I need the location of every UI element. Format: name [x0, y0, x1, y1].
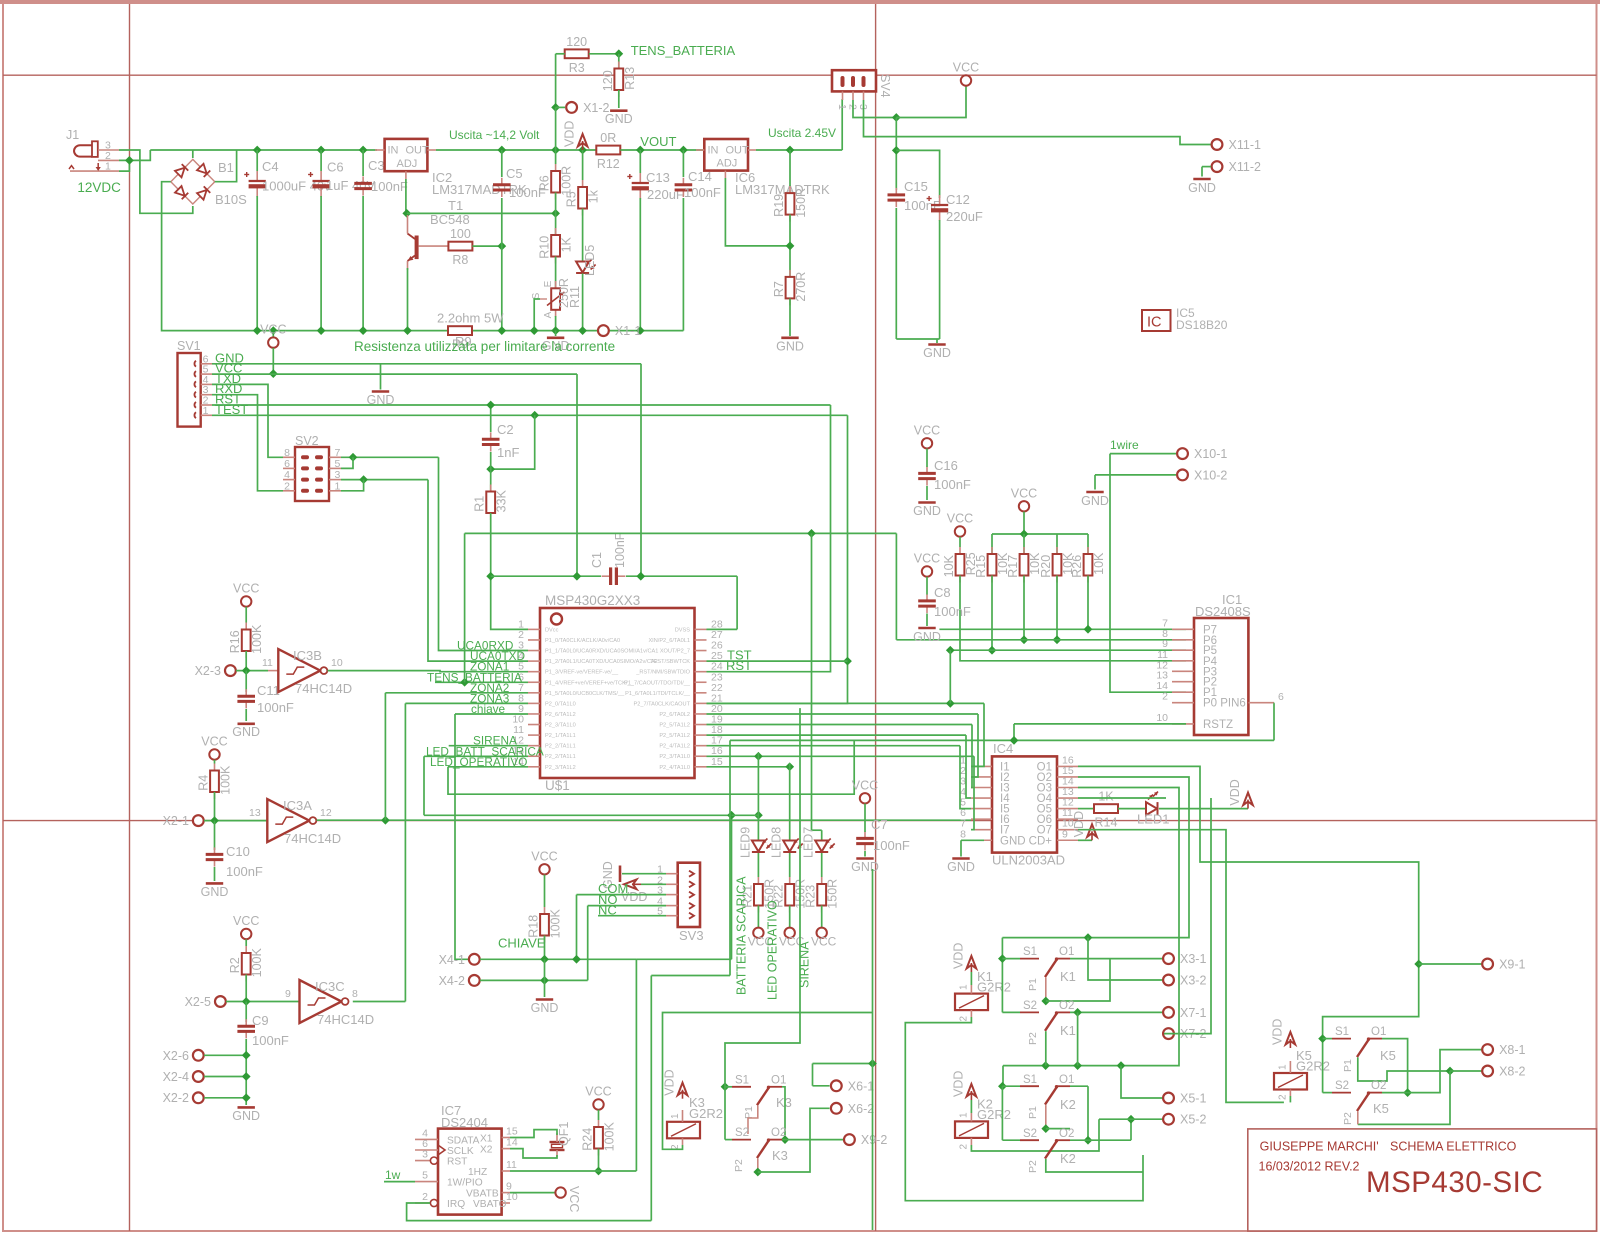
- svg-text:IC3B: IC3B: [293, 648, 322, 663]
- junction: [1403, 1088, 1412, 1097]
- junction: [317, 146, 326, 155]
- svg-text:100K: 100K: [549, 908, 563, 938]
- svg-text:P1_3/VREF-ve/VEREF-ve/__: P1_3/VREF-ve/VEREF-ve/__: [545, 670, 619, 676]
- svg-text:K3: K3: [776, 1095, 792, 1110]
- svg-text:VCC: VCC: [953, 61, 979, 75]
- wire TST row: [707, 660, 848, 662]
- svg-text:G2R2: G2R2: [977, 980, 1011, 995]
- svg-text:VCC: VCC: [567, 1186, 581, 1212]
- inverter IC3C 74HC14: [300, 980, 349, 1023]
- junction: [1073, 1008, 1082, 1017]
- junction: [242, 1093, 251, 1102]
- resistor R1: [473, 485, 509, 521]
- wire C1 left line: [491, 575, 601, 577]
- svg-text:R3: R3: [569, 61, 585, 75]
- VCC supply for R25: [947, 512, 973, 537]
- pin X2-2: [163, 1091, 204, 1105]
- svg-text:LED8: LED8: [770, 827, 784, 858]
- svg-text:VDD: VDD: [951, 943, 965, 969]
- logo circle in MSP430: [551, 614, 562, 625]
- svg-text:GND: GND: [232, 1109, 260, 1123]
- svg-text:SV3: SV3: [679, 928, 704, 943]
- wire R10 to R11: [555, 257, 557, 289]
- resistor R7: [772, 270, 808, 306]
- wire rail to R26: [1087, 534, 1089, 554]
- VCC supply for C16: [914, 423, 940, 448]
- pin X6-1: [831, 1079, 874, 1093]
- svg-text:GND: GND: [913, 504, 941, 518]
- svg-text:2: 2: [1162, 691, 1168, 703]
- svg-text:GND: GND: [232, 725, 260, 739]
- wire VCC to R2: [245, 939, 247, 946]
- svg-text:11: 11: [262, 657, 273, 669]
- svg-text:X4-1: X4-1: [439, 953, 465, 967]
- svg-text:VCC: VCC: [1011, 486, 1037, 500]
- svg-text:100nF: 100nF: [613, 532, 627, 568]
- wire TEST riser long: [707, 415, 848, 703]
- svg-text:220uF: 220uF: [946, 209, 983, 224]
- VDD supply K5: [1270, 1019, 1295, 1048]
- svg-text:X9-2: X9-2: [861, 1133, 887, 1147]
- svg-text:10K: 10K: [1092, 552, 1106, 575]
- svg-text:2: 2: [959, 1144, 970, 1150]
- junction: [1084, 625, 1093, 634]
- svg-text:100nF: 100nF: [371, 179, 408, 194]
- svg-text:_RST/NMI/SBWTDIO: _RST/NMI/SBWTDIO: [635, 670, 690, 676]
- wire VCC to R25: [959, 537, 961, 547]
- svg-text:X2-3: X2-3: [195, 664, 221, 678]
- wire K2 P1 right: [1046, 1128, 1070, 1130]
- wire LED7 feed: [821, 830, 823, 840]
- svg-text:X1: X1: [480, 1134, 493, 1145]
- wire R4 to node: [214, 792, 216, 821]
- wire R7 to GND: [789, 299, 791, 337]
- wire long horizontal 740: [730, 739, 1274, 741]
- LED LED5: [576, 260, 596, 274]
- svg-text:C11: C11: [257, 683, 280, 698]
- svg-text:74HC14D: 74HC14D: [317, 1012, 374, 1027]
- wire to X3-2: [1088, 938, 1164, 980]
- wire SV3 pin2: [641, 883, 666, 885]
- wire TEST to C2 bottom: [491, 415, 535, 469]
- junction: [1010, 736, 1019, 745]
- frame vertical divider left: [129, 4, 131, 1231]
- wire RST down to MSP pin24: [707, 405, 831, 672]
- svg-text:1: 1: [203, 405, 209, 417]
- svg-text:VBATB: VBATB: [466, 1189, 499, 1200]
- svg-text:C10: C10: [226, 844, 250, 859]
- svg-text:O1: O1: [1059, 1074, 1074, 1086]
- wire X8-2 join: [1450, 1070, 1482, 1072]
- svg-text:MSP430-SIC: MSP430-SIC: [1366, 1166, 1543, 1199]
- resistor R4: [197, 764, 233, 800]
- wire SV2 pin3 right: [341, 479, 428, 481]
- wire SV2 pin7 to pin5: [341, 457, 353, 468]
- svg-text:100nF: 100nF: [873, 838, 910, 853]
- wire R19 top: [789, 150, 791, 186]
- wire X10-2 down: [1094, 475, 1096, 490]
- wire to gnd: [936, 339, 938, 343]
- wire T1 emitter to rail: [407, 268, 409, 331]
- junction: [242, 666, 251, 675]
- wire K1 S2 join: [1002, 1011, 1020, 1013]
- svg-text:11: 11: [506, 1159, 517, 1171]
- ground C10: [201, 883, 229, 899]
- svg-text:LED1: LED1: [1137, 812, 1170, 827]
- VDD arrow SV3 pin2: [621, 880, 647, 905]
- wire X4-1 chiave row: [480, 958, 636, 960]
- wire IC2 OUT to R12: [436, 149, 596, 151]
- svg-text:10K: 10K: [942, 554, 956, 577]
- svg-text:Resistenza utilizzata per limi: Resistenza utilizzata per limitare la co…: [354, 339, 615, 354]
- svg-text:R8: R8: [452, 253, 468, 267]
- wire K2 O1: [1070, 1085, 1088, 1087]
- junction: [1446, 1067, 1455, 1076]
- wire bank rail: [992, 533, 1088, 535]
- svg-text:K2: K2: [1060, 1097, 1076, 1112]
- pin X10-2: [1177, 468, 1227, 482]
- svg-text:S1: S1: [735, 1074, 749, 1086]
- svg-text:13: 13: [249, 807, 261, 819]
- VCC supply VBATB: [555, 1187, 565, 1197]
- junction: [359, 475, 368, 484]
- svg-text:SV1: SV1: [177, 339, 201, 353]
- wire R18 to chiave row: [544, 936, 546, 960]
- svg-text:X8-2: X8-2: [1499, 1065, 1525, 1079]
- VDD supply at 14V rail: [563, 121, 588, 150]
- svg-text:K1: K1: [1060, 969, 1076, 984]
- pin X5-2: [1163, 1113, 1206, 1127]
- wire ZONA3 row: [405, 702, 528, 704]
- svg-text:P2_1/TA1L1: P2_1/TA1L1: [545, 733, 576, 739]
- svg-text:100nF: 100nF: [684, 185, 721, 200]
- wire X11-2 stub: [1202, 166, 1211, 168]
- wire rail to IC2 IN: [257, 149, 377, 151]
- junction: [998, 1082, 1007, 1091]
- wire K2 S1 S2 tie: [1001, 1086, 1003, 1140]
- ground X4: [531, 1000, 559, 1016]
- resistor R9 2.2ohm 5W: [448, 326, 472, 351]
- junction: [381, 816, 390, 825]
- svg-text:P1_7/CAOUT/TDO/TDI/__: P1_7/CAOUT/TDO/TDI/__: [624, 680, 691, 686]
- svg-text:1: 1: [670, 1113, 681, 1119]
- svg-text:K5: K5: [1373, 1101, 1389, 1116]
- wire LED_OPERATIVO long route: [448, 740, 854, 794]
- svg-text:1K: 1K: [1098, 790, 1114, 804]
- wire 1wire to X10-1: [1110, 453, 1176, 455]
- svg-text:IC3A: IC3A: [283, 798, 312, 813]
- wire R14 to LED1: [1118, 808, 1146, 810]
- svg-text:P1: P1: [743, 1106, 755, 1119]
- wire X2-2: [204, 1097, 246, 1099]
- junction: [540, 976, 549, 985]
- pin X2-1: [163, 814, 204, 828]
- VDD supply K3: [663, 1069, 688, 1098]
- svg-text:VCC: VCC: [531, 849, 557, 863]
- wire bottom rail right part: [472, 330, 683, 332]
- junction: [1041, 997, 1050, 1006]
- svg-text:C3: C3: [368, 158, 385, 173]
- wire R26 to IC1 P7: [1088, 576, 1186, 630]
- contact K3 S2-O2: [732, 1138, 782, 1158]
- wire down to GND: [544, 959, 546, 997]
- wire 533 row down to LED7: [811, 533, 813, 830]
- wire to VCC circle: [896, 86, 966, 118]
- resistor R5: [565, 180, 601, 216]
- svg-text:C6: C6: [327, 160, 344, 175]
- svg-text:33K: 33K: [495, 489, 509, 512]
- svg-text:X2-6: X2-6: [163, 1049, 189, 1063]
- junction: [359, 146, 368, 155]
- svg-text:2: 2: [284, 480, 290, 492]
- svg-text:P2_5/TA1L2: P2_5/TA1L2: [659, 733, 690, 739]
- wire R3 left: [556, 53, 565, 55]
- IC IC1 DS2408S: [1194, 618, 1248, 735]
- svg-text:GND: GND: [531, 1001, 559, 1015]
- wire chiave row: [455, 713, 528, 715]
- junction: [1414, 960, 1423, 969]
- wire R25 to P4 row: [960, 576, 1186, 661]
- svg-text:R16: R16: [228, 630, 242, 653]
- wire K5 P1 to X8-2: [1358, 1057, 1450, 1081]
- svg-text:ULN2003AD: ULN2003AD: [992, 853, 1065, 868]
- svg-text:VOUT: VOUT: [640, 134, 676, 149]
- wire IC6 ADJ to divider: [725, 178, 790, 246]
- wire 1w to pin5: [384, 1181, 415, 1183]
- svg-text:IC3C: IC3C: [315, 979, 345, 994]
- junction: [551, 326, 560, 335]
- wire C8 to GND: [926, 614, 928, 627]
- junction: [578, 146, 587, 155]
- wire R16 to node: [245, 651, 247, 671]
- VCC supply C7: [852, 778, 878, 803]
- wire riser 731: [731, 815, 733, 959]
- junction: [721, 1082, 730, 1091]
- wire K5 coil pin2: [1289, 1096, 1291, 1102]
- svg-text:SCLK: SCLK: [447, 1146, 474, 1157]
- wire S1 join: [1002, 958, 1020, 960]
- svg-text:VCC: VCC: [947, 512, 973, 526]
- svg-text:ADJ: ADJ: [397, 158, 418, 170]
- junction: [1318, 1034, 1327, 1043]
- IC IC4 ULN2003AD: [992, 756, 1057, 852]
- LED LED8: [783, 839, 803, 853]
- wire K3 S feed from MSP: [725, 708, 800, 1140]
- wire IC3B out ZONA1: [328, 671, 528, 672]
- svg-text:X11-1: X11-1: [1229, 138, 1261, 152]
- pin X5-1: [1163, 1092, 1206, 1106]
- svg-text:100nF: 100nF: [226, 864, 263, 879]
- wire R2 to node: [245, 975, 247, 1002]
- potentiometer R11 250R: [531, 278, 582, 318]
- svg-text:BC548: BC548: [430, 212, 470, 227]
- contact K2 S2-O2: [1020, 1139, 1070, 1159]
- wire down to C15: [895, 118, 897, 191]
- wire branch to C12: [896, 150, 939, 198]
- wire LED_BATT drop: [423, 756, 425, 815]
- IC IC7 DS2404: [438, 1129, 502, 1215]
- wire O1 to X3-1: [1070, 958, 1164, 960]
- wire X8-2 to P2: [1358, 1071, 1450, 1124]
- junction: [573, 572, 582, 581]
- svg-text:SCHEMA ELETTRICO: SCHEMA ELETTRICO: [1390, 1140, 1517, 1154]
- wire MSP pin28 row: [707, 628, 738, 630]
- wire GND row down to C1: [640, 364, 642, 576]
- contact K3 S1-O1: [732, 1086, 782, 1106]
- svg-text:4: 4: [284, 469, 290, 481]
- svg-text:ADJ: ADJ: [717, 158, 738, 170]
- ground C15 C12: [923, 345, 951, 361]
- wire to X5-1: [1121, 1066, 1164, 1098]
- junction: [486, 572, 495, 581]
- svg-text:R4: R4: [197, 775, 211, 791]
- svg-text:270R: 270R: [794, 272, 808, 302]
- wire 1wire down to IC1 P1: [1110, 454, 1186, 693]
- svg-text:X6-2: X6-2: [848, 1102, 874, 1116]
- svg-text:P0 PIN6: P0 PIN6: [1203, 698, 1246, 710]
- svg-text:2.2ohm 5W: 2.2ohm 5W: [437, 311, 504, 326]
- wire to GND stub: [555, 331, 557, 336]
- svg-text:8: 8: [960, 828, 966, 840]
- svg-text:1W/PIO: 1W/PIO: [447, 1178, 483, 1189]
- svg-text:DVcc: DVcc: [545, 627, 559, 633]
- wire VCC row down to C1: [576, 374, 578, 576]
- junction: [551, 146, 560, 155]
- svg-text:P1_2/TA0L1/UCA0TXD/UCA0SIMO/A2: P1_2/TA0L1/UCA0TXD/UCA0SIMO/A2v/CA2: [545, 659, 658, 665]
- junction: [988, 646, 997, 655]
- wire R20 down: [1056, 576, 1058, 640]
- svg-text:P2_2/TA1L1: P2_2/TA1L1: [545, 754, 576, 760]
- crystal QF1: [550, 1133, 565, 1157]
- connector SV2: [295, 447, 329, 501]
- junction J1 pins: [125, 156, 134, 165]
- svg-text:G2R2: G2R2: [1296, 1059, 1330, 1074]
- svg-text:P1_4/VREF+ve/VEREF+ve/TCK/__: P1_4/VREF+ve/VEREF+ve/TCK/__: [545, 680, 634, 686]
- pin X1-1: [598, 324, 641, 338]
- junction TENS riser: [460, 678, 469, 687]
- junction: [1053, 635, 1062, 644]
- pin X2-4: [163, 1070, 204, 1084]
- svg-text:O2: O2: [771, 1127, 786, 1139]
- wire VCC to R24: [598, 1110, 600, 1120]
- wire RSTZ drop: [1013, 724, 1015, 741]
- wire bridge - down to bottom rail: [162, 182, 448, 331]
- svg-text:CHIAVE: CHIAVE: [498, 936, 546, 951]
- svg-text:IRQ: IRQ: [447, 1199, 465, 1210]
- wire bridge + to rail: [215, 150, 237, 182]
- wire rail to R15: [991, 534, 993, 554]
- resistor R20: [1039, 547, 1075, 583]
- wire IRQ bottom run: [407, 1203, 652, 1221]
- svg-text:X9-1: X9-1: [1499, 958, 1525, 972]
- junction: [636, 146, 645, 155]
- wire VCC to C8: [926, 577, 928, 595]
- wire X4-2 row: [480, 979, 588, 981]
- svg-text:1K: 1K: [560, 236, 574, 252]
- svg-text:P1_0/TA0CLK/ACLK/A0v/CA0: P1_0/TA0CLK/ACLK/A0v/CA0: [545, 638, 620, 644]
- wire LED5 to rail: [582, 274, 584, 331]
- svg-text:P1_6/TA0L1/TDI/TCLK/__: P1_6/TA0L1/TDI/TCLK/__: [625, 691, 691, 697]
- wire C13 top: [639, 150, 641, 173]
- svg-text:O2: O2: [1059, 1000, 1074, 1012]
- svg-text:R12: R12: [597, 157, 620, 171]
- VDD supply K1: [951, 943, 976, 972]
- junction: [349, 453, 358, 462]
- svg-text:100nF: 100nF: [934, 604, 971, 619]
- svg-text:E: E: [543, 280, 554, 287]
- svg-text:100nF: 100nF: [257, 700, 294, 715]
- inverter IC3A 74HC14: [267, 799, 316, 842]
- wire O2 to X7-1: [1070, 1011, 1164, 1013]
- svg-text:120: 120: [566, 35, 587, 49]
- wire K2 S1 join: [1002, 1085, 1020, 1087]
- wire to R13: [618, 54, 620, 69]
- VCC supply for R18: [531, 849, 557, 874]
- ground C8: [913, 628, 941, 644]
- junction: [317, 326, 326, 335]
- svg-text:100: 100: [450, 227, 471, 241]
- junction: [754, 752, 763, 761]
- contact K5 S2-O2: [1332, 1091, 1382, 1111]
- pin X7-1: [1163, 1006, 1206, 1020]
- svg-text:VCC: VCC: [585, 1085, 611, 1099]
- svg-text:K5: K5: [1380, 1048, 1396, 1063]
- pin X2-5: [185, 995, 226, 1009]
- svg-text:X7-1: X7-1: [1180, 1006, 1206, 1020]
- wire X5-2 row: [1099, 1118, 1164, 1120]
- wire MSP pin19 row: [707, 724, 973, 726]
- capacitor C5: [493, 178, 511, 197]
- pin X4-1: [439, 953, 480, 967]
- wire VCC to R4: [214, 760, 216, 764]
- junction: [636, 572, 645, 581]
- junction: [785, 762, 794, 771]
- title block border: [1248, 1129, 1597, 1231]
- svg-text:C9: C9: [252, 1013, 269, 1028]
- wire ZONA2 riser: [384, 693, 386, 820]
- junction: [210, 816, 219, 825]
- junction: [1020, 635, 1029, 644]
- contact K2 S1-O1: [1020, 1085, 1070, 1105]
- svg-text:100K: 100K: [250, 624, 264, 654]
- svg-text:LED OPERATIVO: LED OPERATIVO: [766, 900, 780, 1000]
- svg-text:R24: R24: [581, 1128, 595, 1151]
- wire C2 top to RST: [490, 405, 492, 432]
- wire up to SV4 pin1: [841, 99, 843, 150]
- wire K3 O1 drop: [782, 1087, 785, 1140]
- pin X3-2: [1163, 974, 1206, 988]
- wire rail to VCC circle: [272, 331, 274, 338]
- resistor R6: [538, 164, 574, 200]
- svg-text:100nF: 100nF: [252, 1033, 289, 1048]
- resistor R3: [565, 35, 589, 75]
- wire node to C9: [245, 1002, 247, 1023]
- junction: [946, 646, 955, 655]
- wire horizontal 958: [636, 958, 731, 960]
- wire K2 O1 drop: [1087, 1086, 1089, 1140]
- svg-text:X4-2: X4-2: [439, 974, 465, 988]
- junction: [1117, 1061, 1126, 1070]
- voltage regulator IC6 LM317: [704, 139, 748, 171]
- svg-text:P2: P2: [1027, 1160, 1039, 1173]
- resistor R19: [772, 186, 808, 222]
- svg-text:K3: K3: [772, 1148, 788, 1163]
- svg-text:GND: GND: [1188, 181, 1216, 195]
- wire C16 to GND: [926, 486, 928, 500]
- wire X2-4: [204, 1076, 246, 1078]
- resistor R24: [581, 1120, 617, 1156]
- ground X10-2: [1081, 492, 1109, 508]
